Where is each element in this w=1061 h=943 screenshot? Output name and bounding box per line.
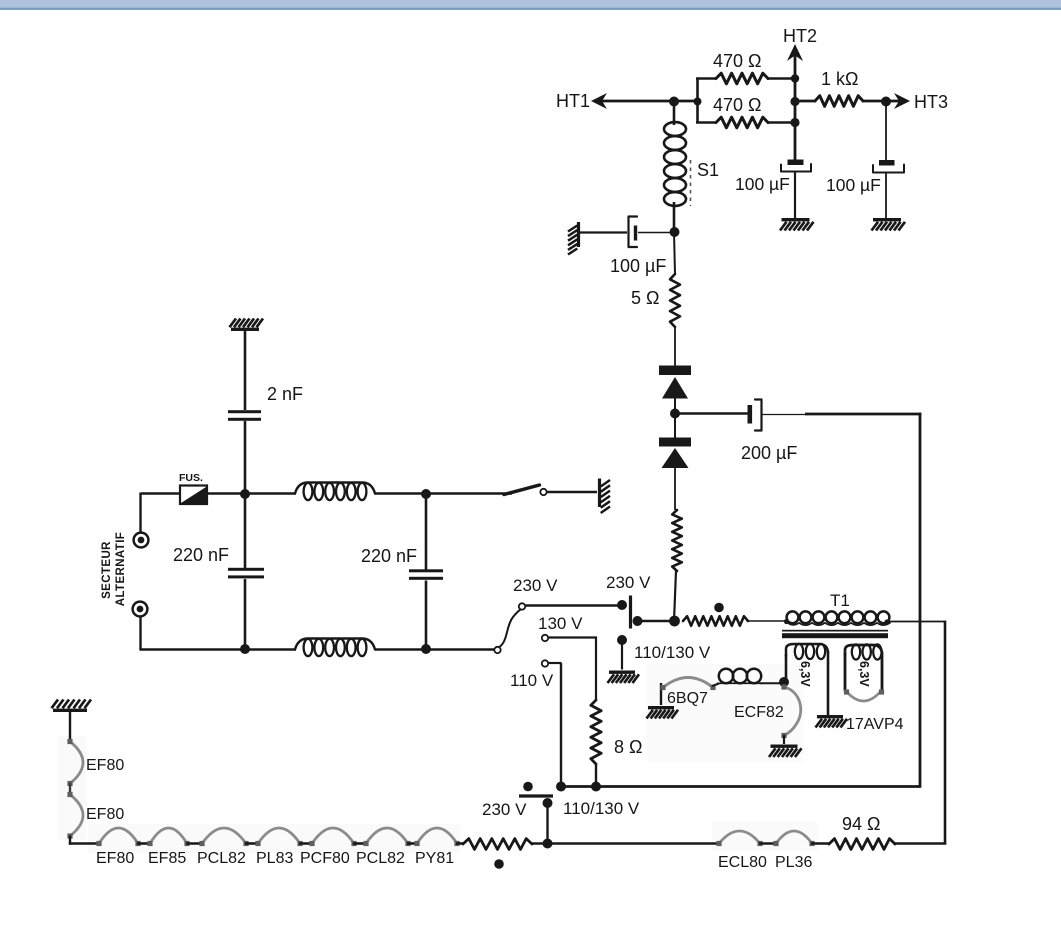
wire surge to T1 node (674, 571, 676, 621)
node primary winding end (884, 619, 889, 624)
wire rail to ECL80 (531, 842, 720, 845)
svg-text:1 kΩ: 1 kΩ (821, 69, 858, 89)
wire to primary winding (747, 620, 787, 622)
svg-text:100 µF: 100 µF (826, 175, 881, 195)
svg-text:230 V: 230 V (606, 573, 651, 592)
node rectifier midpoint (670, 409, 680, 419)
node 470 lower right (790, 118, 799, 127)
wire cap to ground (794, 173, 796, 219)
capacitor 100uF mid plate (634, 226, 637, 241)
wire bottom bus 786 (560, 785, 920, 788)
wire fuse to node (207, 492, 246, 494)
wire 230V contact to bar (526, 604, 619, 606)
node ground tap (617, 635, 627, 645)
capacitor 220nF first (244, 495, 247, 568)
svg-text:EF80: EF80 (86, 757, 124, 774)
resistor 1 kohm (795, 100, 815, 103)
resistor 5 ohm (670, 274, 680, 327)
svg-text:SECTEUR: SECTEUR (101, 541, 113, 599)
selector lever curve (500, 610, 521, 647)
wire ground to 2nF (244, 331, 247, 410)
tube heater PY81 bottom row (417, 828, 457, 844)
wire secondary right lead (827, 651, 830, 715)
wire cap to node (638, 232, 670, 234)
ground under 6BQ7 (648, 706, 674, 709)
node HT3 (881, 97, 891, 107)
inductor secondary 6.3V left (786, 644, 828, 656)
contact 110V (542, 660, 548, 666)
node S1 bottom (670, 227, 680, 237)
wire cap2 to ground (885, 173, 887, 218)
svg-text:PCF80: PCF80 (300, 850, 350, 867)
ground under 6.3V left (817, 715, 843, 718)
capacitor 200uF plate (748, 405, 753, 424)
wire to selector (426, 648, 494, 650)
resistor 470 ohm upper (716, 73, 768, 84)
svg-text:6,3V: 6,3V (798, 661, 812, 687)
tube heater ECL80 (719, 831, 760, 844)
node junction S1/HT1 (669, 97, 679, 107)
node floating 230V bottom (523, 782, 533, 792)
wire parallel bracket (696, 79, 699, 124)
node T1 primary left (669, 616, 680, 627)
contact 130V (542, 635, 548, 641)
inductor mains choke top (295, 483, 375, 494)
resistor 470 ohm lower (716, 117, 768, 128)
tube heater EF80 upper (70, 742, 83, 784)
node floating below dropper (494, 859, 504, 869)
wire 2nF to rail (244, 421, 247, 495)
svg-text:HT2: HT2 (783, 26, 817, 46)
node filter bottom (421, 644, 431, 654)
wire heater rail segment (137, 842, 151, 845)
resistor 94 ohm (829, 839, 895, 850)
rectifier D1 plate (659, 366, 691, 376)
node mains top (240, 489, 250, 499)
svg-text:ALTERNATIF: ALTERNATIF (115, 532, 127, 606)
wire CRT left lead (844, 653, 847, 691)
wire 130V tap (549, 636, 598, 638)
capacitor 220nF second (425, 494, 428, 570)
svg-text:470 Ω: 470 Ω (713, 95, 762, 115)
node bus 110V (556, 782, 566, 792)
tube heater ECF82 (784, 687, 801, 736)
svg-text:110 V: 110 V (510, 671, 554, 690)
svg-text:PCL82: PCL82 (197, 850, 246, 867)
terminal secteur upper (134, 533, 149, 548)
wire heater rail segment (299, 842, 313, 845)
svg-text:470 Ω: 470 Ω (713, 51, 762, 71)
wire node to 5ohm (674, 232, 675, 274)
selector open end (494, 647, 500, 653)
svg-text:100 µF: 100 µF (610, 256, 666, 276)
wire tap to ground (621, 640, 623, 670)
wire HT3 arrow (886, 100, 899, 103)
capacitor 2nF (228, 410, 261, 413)
wire to choke top (246, 492, 296, 494)
tube heater PL36 (776, 831, 812, 844)
svg-text:220 nF: 220 nF (361, 546, 417, 566)
wire 94ohm to corner (894, 842, 946, 845)
tube heater EF80 lower (70, 795, 83, 837)
wire between EF80s (69, 783, 71, 795)
ground wall left of 100uF (577, 222, 580, 247)
wire primary to right vertical (887, 621, 946, 623)
ground above 2nF (231, 328, 259, 331)
wire ECL80 to PL36 (759, 842, 777, 845)
wire HT2 node down (794, 122, 797, 160)
svg-text:230 V: 230 V (482, 800, 527, 819)
svg-text:ECL80: ECL80 (718, 854, 767, 871)
tube heater 17AVP4 (846, 691, 881, 701)
wire node to S1 (673, 101, 676, 125)
node floating above primary (714, 603, 724, 613)
svg-text:220 nF: 220 nF (173, 545, 229, 565)
svg-text:2 nF: 2 nF (267, 384, 303, 404)
capacitor 200uF can (755, 400, 762, 431)
wire to choke bottom (246, 648, 296, 650)
tube heater PL83 bottom row (258, 828, 300, 844)
svg-text:200 µF: 200 µF (741, 443, 797, 463)
wire switch to ground (548, 491, 598, 493)
arrow HT2 (787, 44, 803, 61)
node heater junction (779, 677, 789, 687)
wire node to 200uF (675, 412, 748, 415)
wire D1 to node (674, 398, 676, 412)
selector contact 230V (519, 603, 525, 609)
svg-text:PL83: PL83 (256, 850, 293, 867)
svg-text:110/130 V: 110/130 V (634, 643, 711, 662)
switch contact circle (540, 489, 546, 495)
wire node to D2 (674, 414, 676, 438)
top window strip (0, 0, 1061, 8)
resistor heater dropper (463, 839, 532, 850)
inductor T1 primary (787, 611, 799, 623)
svg-text:HT3: HT3 (914, 92, 948, 112)
svg-text:5 Ω: 5 Ω (631, 288, 659, 308)
wire lower terminal down (139, 616, 141, 651)
wire heater rail segment (407, 842, 418, 845)
wire ECF82 to ground (783, 735, 785, 744)
wire left rail top (141, 492, 180, 494)
svg-text:130 V: 130 V (538, 614, 583, 633)
inductor mains choke bottom (295, 639, 375, 650)
selector bar bottom (519, 794, 553, 797)
wire D2 down (674, 467, 676, 510)
node bus 8ohm (591, 782, 601, 792)
resistor surge vertical (672, 510, 682, 571)
wire bar to T1 node (637, 620, 675, 622)
node heater rail selector (543, 839, 553, 849)
faint scan washes (88, 824, 460, 853)
ground above EF80 string (53, 709, 87, 712)
svg-text:T1: T1 (830, 591, 850, 610)
resistor 8 ohm (591, 700, 601, 764)
svg-text:PCL82: PCL82 (356, 850, 405, 867)
rectifier D1 triangle (662, 377, 688, 399)
wire 5ohm to diode (674, 327, 676, 366)
svg-text:ECF82: ECF82 (734, 704, 784, 721)
node 230V bar left (617, 600, 627, 610)
capacitor 100uF right can (873, 165, 904, 173)
node bracket (694, 98, 702, 106)
ground under selector (609, 671, 635, 674)
svg-text:6,3V: 6,3V (857, 661, 871, 687)
wire ground to cap (580, 231, 627, 233)
svg-text:6BQ7: 6BQ7 (667, 690, 708, 707)
core T1 (782, 633, 888, 638)
capacitor 100uF right plate (879, 160, 895, 166)
rectifier D2 plate (659, 438, 691, 447)
wire HT3 node down (885, 101, 887, 160)
ground under right 100uF (873, 218, 901, 221)
inductor secondary 6.3V right (845, 645, 882, 656)
svg-text:230 V: 230 V (513, 576, 558, 595)
tube heater PCL82 bottom row (202, 828, 246, 844)
inductor heater choke (719, 669, 733, 683)
wire choke to switch (375, 492, 512, 494)
wire 110V tap (549, 662, 562, 664)
ground under left 100uF (782, 218, 810, 221)
tube heater PCL82 bottom row (366, 828, 408, 844)
wire PL36 to 94ohm (811, 842, 830, 845)
node filter top (421, 489, 431, 499)
wire choke2 to node (375, 648, 427, 650)
wire 6BQ7 stem (660, 683, 662, 705)
rectifier D2 triangle (662, 448, 689, 468)
svg-text:EF80: EF80 (86, 806, 124, 823)
svg-text:PL36: PL36 (775, 854, 812, 871)
wire heater rail segment (186, 842, 203, 845)
capacitor 100uF left can (781, 164, 811, 172)
node selector bottom (543, 798, 553, 808)
svg-text:94 Ω: 94 Ω (842, 814, 880, 834)
wire ground to EF80 (69, 712, 71, 742)
selector bar vertical (629, 596, 632, 629)
svg-text:HT1: HT1 (556, 91, 590, 111)
capacitor 100uF left plate (788, 160, 804, 166)
wire 6BQ7 to coil (712, 684, 719, 687)
wire 200uF thin (762, 414, 806, 416)
tube heater PCF80 bottom row (312, 828, 354, 844)
svg-text:PY81: PY81 (415, 850, 454, 867)
node bar right (633, 616, 643, 626)
tube heater EF80 bottom row (99, 828, 138, 844)
wire 8ohm to bus (595, 764, 597, 787)
svg-text:8 Ω: 8 Ω (614, 737, 642, 757)
node HT2 main (790, 97, 799, 106)
node mains bottom (240, 644, 250, 654)
wire secondary left lead (785, 654, 788, 679)
wire selector to heater rail (546, 803, 548, 844)
fuse FUS body (180, 486, 207, 505)
wire EF80 to rail corner (69, 836, 71, 845)
ground under ECF82 (771, 745, 798, 748)
svg-text:17AVP4: 17AVP4 (846, 716, 904, 733)
node 470 upper right (791, 74, 799, 82)
wire CRT right lead (881, 652, 884, 691)
svg-text:FUS.: FUS. (179, 472, 203, 484)
wire heater rail segment (353, 842, 367, 845)
wire heater rail segment (245, 842, 259, 845)
wire coil to node (760, 682, 780, 684)
tube heater 6BQ7 (663, 678, 713, 688)
resistor primary surge (683, 616, 748, 626)
svg-text:100 µF: 100 µF (735, 174, 790, 194)
wire HT2 riser (794, 55, 797, 123)
ground wall right of switch (598, 479, 601, 508)
wire right bus vertical (919, 413, 922, 788)
wire right vertical to T1 (944, 621, 947, 844)
wire S1 to node (673, 202, 676, 232)
svg-text:EF80: EF80 (96, 850, 134, 867)
S1 core dashes (690, 160, 692, 206)
wire heater rail to resistor (456, 842, 464, 845)
svg-text:S1: S1 (697, 160, 719, 180)
node primary winding start (784, 619, 789, 624)
wire HT1 arrow (591, 93, 607, 109)
svg-text:110/130 V: 110/130 V (563, 799, 640, 818)
inductor S1 (664, 122, 686, 136)
switch lever on/off (504, 485, 540, 495)
wire 200uF to right bus (805, 413, 921, 416)
capacitor 100uF mid can (629, 217, 638, 248)
tube heater EF85 bottom row (150, 828, 187, 844)
terminal secteur lower (133, 602, 148, 617)
wire node to bracket (674, 100, 698, 103)
svg-text:EF85: EF85 (148, 850, 186, 867)
